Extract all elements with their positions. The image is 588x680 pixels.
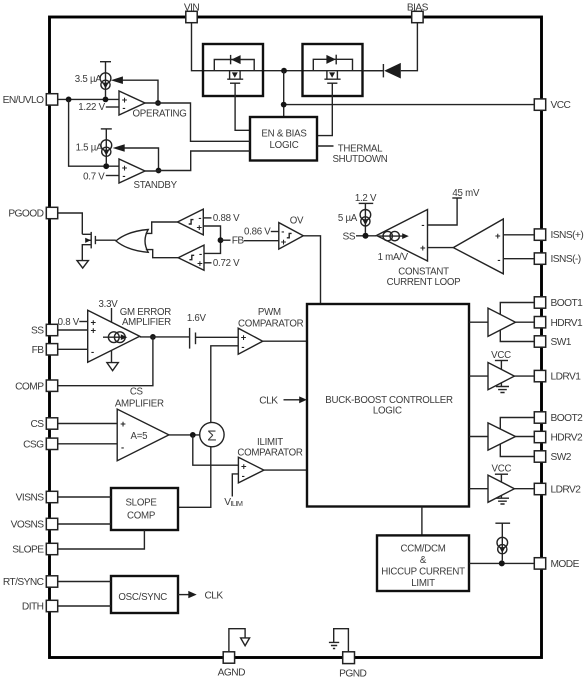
wire OPERATING to EN and BIAS bbox=[145, 103, 250, 141]
wire sigma to slope comp bbox=[178, 447, 211, 508]
svg-text:Σ: Σ bbox=[207, 427, 216, 444]
wire HDRV1 output bbox=[516, 321, 535, 323]
node SS bbox=[343, 232, 377, 243]
svg-text:+: + bbox=[196, 222, 202, 233]
node COMP junction bbox=[150, 334, 156, 340]
wire STANDBY to EN and BIAS bbox=[145, 151, 250, 171]
wire PWM comparator output bbox=[263, 340, 307, 342]
label CLK from oscillator bbox=[178, 590, 223, 601]
svg-text:5 µA: 5 µA bbox=[338, 213, 358, 224]
BUCK-BOOST CONTROLLER LOGIC block bbox=[307, 304, 469, 507]
svg-text:A=5: A=5 bbox=[131, 431, 148, 442]
wire CS amp output bbox=[169, 432, 200, 438]
wire ISNS(-) bbox=[503, 258, 534, 260]
wire HDRV2 output bbox=[516, 436, 535, 438]
pass FET Q2 box bbox=[303, 44, 363, 96]
svg-text:LOGIC: LOGIC bbox=[270, 140, 299, 151]
ground at Q3 bbox=[77, 261, 88, 269]
op-amp FB UV comparator 0.72V bbox=[178, 245, 204, 270]
svg-text:-: - bbox=[122, 171, 125, 182]
pin VOSNS bbox=[11, 518, 58, 530]
capacitor 1.6V offset bbox=[187, 313, 207, 349]
pin DITH bbox=[22, 600, 58, 612]
SLOPE COMP block bbox=[111, 488, 178, 530]
svg-text:ISNS(-): ISNS(-) bbox=[551, 254, 581, 265]
svg-text:HICCUP CURRENT: HICCUP CURRENT bbox=[381, 566, 465, 577]
ground at LDRV2 bbox=[496, 496, 509, 505]
svg-text:VCC: VCC bbox=[551, 100, 571, 111]
svg-text:1.2 V: 1.2 V bbox=[355, 193, 377, 204]
current source I1 3.5uA bbox=[75, 62, 111, 97]
svg-text:LDRV1: LDRV1 bbox=[551, 372, 582, 383]
svg-text:0.8 V: 0.8 V bbox=[58, 317, 80, 328]
pin LDRV1 bbox=[534, 370, 581, 382]
svg-text:SHUTDOWN: SHUTDOWN bbox=[332, 154, 387, 165]
svg-text:VOSNS: VOSNS bbox=[11, 520, 45, 531]
wire to ILIMIT plus bbox=[193, 435, 239, 465]
svg-text:OPERATING: OPERATING bbox=[133, 109, 187, 120]
svg-text:VILIM: VILIM bbox=[224, 497, 243, 508]
svg-text:1.5 µA: 1.5 µA bbox=[76, 142, 103, 153]
pin RT/SYNC bbox=[3, 576, 58, 588]
pin VISNS bbox=[16, 491, 58, 503]
pin AGND bbox=[218, 652, 245, 679]
label GM ERROR AMPLIFIER bbox=[120, 307, 172, 328]
pin CS bbox=[30, 418, 57, 430]
svg-text:LIMIT: LIMIT bbox=[411, 578, 435, 589]
svg-text:3.5 µA: 3.5 µA bbox=[75, 74, 102, 85]
svg-text:1.6V: 1.6V bbox=[187, 313, 207, 324]
OR gate U4 bbox=[116, 230, 148, 253]
wire logic to HDRV2 driver bbox=[469, 436, 488, 438]
svg-text:RT/SYNC: RT/SYNC bbox=[3, 577, 44, 588]
wire logic to LDRV1 driver bbox=[469, 375, 488, 377]
svg-text:VISNS: VISNS bbox=[16, 493, 45, 504]
svg-text:PWM: PWM bbox=[258, 307, 281, 318]
svg-text:AGND: AGND bbox=[218, 668, 245, 679]
svg-text:CS: CS bbox=[130, 387, 144, 398]
label CONSTANT CURRENT LOOP bbox=[387, 267, 461, 288]
svg-text:SW1: SW1 bbox=[551, 337, 572, 348]
op-amp ISNS sense amplifier bbox=[453, 219, 503, 274]
buffer HDRV2 driver bbox=[488, 423, 516, 450]
svg-text:BIAS: BIAS bbox=[407, 3, 429, 14]
pin BOOT1 bbox=[534, 297, 583, 309]
svg-text:SS: SS bbox=[31, 326, 44, 337]
wire COMP pin bbox=[58, 337, 153, 386]
svg-text:CSG: CSG bbox=[23, 439, 44, 450]
svg-text:AMPLIFIER: AMPLIFIER bbox=[122, 317, 171, 328]
op-amp constant current gm amplifier 1mA/V bbox=[377, 210, 428, 264]
ground at LDRV1 bbox=[496, 383, 509, 393]
pin VIN bbox=[184, 3, 200, 23]
wire LDRV2 output bbox=[514, 488, 534, 490]
label VCC at LDRV2 bbox=[492, 464, 512, 482]
current source I4 at MODE bbox=[495, 523, 510, 560]
svg-text:&: & bbox=[420, 555, 427, 566]
pin FB bbox=[32, 344, 58, 356]
pass FET Q1 box bbox=[203, 44, 263, 96]
label 0.7 V bbox=[83, 172, 119, 183]
label 0.88 V bbox=[203, 213, 240, 224]
svg-text:EN/UVLO: EN/UVLO bbox=[3, 95, 45, 106]
svg-text:ISNS(+): ISNS(+) bbox=[551, 230, 584, 241]
svg-text:+: + bbox=[120, 419, 126, 430]
diode D1 BIAS to VCC bbox=[363, 63, 401, 79]
wire DITH pin bbox=[58, 605, 111, 607]
svg-text:0.88 V: 0.88 V bbox=[213, 213, 240, 224]
node OPERATING output bbox=[155, 100, 161, 106]
svg-text:AMPLIFIER: AMPLIFIER bbox=[115, 399, 164, 410]
label 0.8 V bbox=[58, 317, 88, 328]
ground symbol PGND bbox=[329, 629, 349, 654]
svg-text:+: + bbox=[91, 326, 97, 337]
op-amp FB OV comparator 0.88V bbox=[178, 209, 204, 235]
pin HDRV2 bbox=[534, 431, 583, 443]
svg-text:BOOT1: BOOT1 bbox=[551, 298, 584, 309]
buffer LDRV1 driver bbox=[488, 363, 514, 390]
buffer HDRV1 driver bbox=[488, 308, 516, 336]
svg-text:FB: FB bbox=[232, 236, 245, 247]
wire BOOT1 bbox=[500, 303, 534, 315]
svg-text:-: - bbox=[281, 227, 284, 238]
wire VOSNS pin bbox=[58, 523, 111, 525]
label 0.86 V bbox=[244, 227, 279, 238]
pin SLOPE bbox=[12, 543, 57, 555]
wire CC amp plus input bbox=[428, 247, 454, 249]
CCM/DCM HICCUP block bbox=[377, 535, 469, 591]
svg-text:CONSTANT: CONSTANT bbox=[398, 267, 449, 278]
svg-text:LDRV2: LDRV2 bbox=[551, 485, 582, 496]
wire VIN to Q1 bbox=[192, 23, 204, 71]
ground symbol AGND bbox=[229, 629, 250, 653]
svg-text:0.86 V: 0.86 V bbox=[244, 227, 271, 238]
pin HDRV1 bbox=[534, 317, 583, 329]
wire FB pin to error amp bbox=[58, 348, 88, 350]
wire VCC rail bbox=[284, 71, 535, 117]
wire VIN rail through Q1 Q2 bbox=[203, 70, 383, 72]
transistor Q2 bbox=[324, 71, 340, 84]
wire SW2 bbox=[500, 444, 534, 457]
svg-text:ILIMIT: ILIMIT bbox=[257, 437, 283, 448]
wire comparator outputs to OR inputs bbox=[146, 222, 179, 258]
svg-text:FB: FB bbox=[32, 345, 45, 356]
wire ramp to PWM minus bbox=[211, 346, 238, 423]
op-amp OV comparator bbox=[279, 215, 304, 249]
svg-text:BOOT2: BOOT2 bbox=[551, 413, 584, 424]
op-amp U6 PWM comparator bbox=[238, 328, 263, 354]
op-amp U7 CS amplifier A=5 bbox=[117, 409, 169, 461]
label 0.72 V bbox=[204, 258, 240, 269]
pin PGND bbox=[339, 652, 366, 680]
svg-text:CLK: CLK bbox=[259, 396, 278, 407]
svg-text:-: - bbox=[122, 103, 125, 114]
wire LDRV1 output bbox=[514, 375, 534, 377]
svg-text:HDRV1: HDRV1 bbox=[551, 318, 583, 329]
wire Q1 gate to EN and BIAS logic bbox=[235, 83, 250, 130]
svg-text:CCM/DCM: CCM/DCM bbox=[400, 544, 445, 555]
wire OV output to logic bbox=[303, 236, 320, 304]
wire error amp output bbox=[140, 336, 190, 338]
svg-text:-: - bbox=[121, 443, 124, 454]
wire PGOOD bbox=[58, 213, 83, 234]
wire MODE bbox=[469, 560, 534, 566]
label 3.3V bbox=[99, 299, 119, 322]
svg-text:COMP: COMP bbox=[15, 381, 44, 392]
svg-text:VCC: VCC bbox=[492, 464, 512, 475]
label PWM COMPARATOR bbox=[238, 307, 304, 329]
svg-text:1 mA/V: 1 mA/V bbox=[378, 252, 409, 263]
svg-text:+: + bbox=[495, 231, 501, 242]
svg-text:CS: CS bbox=[30, 419, 44, 430]
pin PGOOD bbox=[8, 207, 57, 219]
IC boundary bbox=[50, 17, 542, 658]
label ILIMIT COMPARATOR bbox=[237, 437, 303, 459]
op-amp STANDBY comparator bbox=[119, 159, 178, 191]
label 1.22 V bbox=[78, 102, 119, 113]
svg-text:HDRV2: HDRV2 bbox=[551, 433, 583, 444]
pin MODE bbox=[534, 558, 579, 570]
svg-text:MODE: MODE bbox=[551, 559, 580, 570]
svg-text:VCC: VCC bbox=[491, 350, 511, 361]
svg-text:0.72 V: 0.72 V bbox=[213, 258, 240, 269]
svg-text:COMP: COMP bbox=[127, 510, 155, 521]
svg-text:OSC/SYNC: OSC/SYNC bbox=[118, 592, 167, 603]
svg-text:SS: SS bbox=[343, 232, 356, 243]
pin VCC bbox=[534, 99, 570, 111]
summing node sigma bbox=[200, 422, 224, 446]
svg-text:-: - bbox=[241, 342, 244, 353]
body diode of Q2 bbox=[313, 55, 352, 71]
pin SS bbox=[31, 324, 58, 336]
hysteresis arrow to I1 bbox=[111, 76, 158, 103]
buffer LDRV2 driver bbox=[488, 475, 514, 502]
svg-text:VIN: VIN bbox=[184, 3, 200, 14]
svg-text:STANDBY: STANDBY bbox=[134, 180, 178, 191]
pin ISNS(-) bbox=[534, 253, 580, 265]
pin BIAS bbox=[407, 3, 429, 23]
hysteresis arrow to I2 bbox=[113, 144, 159, 170]
wire ILIMIT output bbox=[264, 469, 307, 471]
EN and BIAS LOGIC block U3 bbox=[250, 117, 317, 161]
wire offset to PWM comparator bbox=[196, 336, 239, 338]
svg-text:CLK: CLK bbox=[205, 590, 224, 601]
node between Q1 and Q2 bbox=[281, 68, 287, 74]
label VCC at LDRV1 bbox=[491, 350, 511, 369]
pin SW1 bbox=[534, 336, 572, 348]
wire OR gate to Q3 gate bbox=[95, 239, 115, 241]
pin EN/UVLO bbox=[3, 94, 58, 106]
node FB bbox=[218, 236, 279, 247]
ground at error amp bbox=[107, 351, 118, 371]
body diode of Q1 bbox=[214, 55, 254, 71]
svg-text:PGND: PGND bbox=[339, 668, 366, 679]
svg-text:+: + bbox=[281, 237, 287, 248]
wire SLOPE pin bbox=[58, 530, 145, 549]
pin CSG bbox=[23, 438, 58, 450]
wire thermal shutdown bbox=[317, 143, 388, 165]
current source I3 5uA with 1.2V bbox=[338, 193, 377, 233]
wire CSG pin bbox=[58, 443, 117, 445]
pin SW2 bbox=[534, 451, 572, 463]
svg-text:LOGIC: LOGIC bbox=[373, 406, 402, 417]
wire Q2 gate to EN and BIAS logic bbox=[317, 83, 332, 135]
svg-text:+: + bbox=[420, 243, 426, 254]
svg-text:+: + bbox=[197, 259, 203, 270]
svg-text:-: - bbox=[421, 220, 424, 231]
pin COMP bbox=[15, 380, 58, 392]
op-amp U5 GM error amplifier bbox=[88, 310, 140, 362]
wire RT/SYNC pin bbox=[58, 581, 111, 583]
svg-text:SW2: SW2 bbox=[551, 452, 572, 463]
label CLK into logic bbox=[259, 396, 307, 407]
svg-text:PGOOD: PGOOD bbox=[8, 209, 43, 220]
wire logic to CCM/DCM block bbox=[421, 507, 423, 536]
wire SW1 bbox=[500, 330, 534, 342]
wire BOOT2 bbox=[500, 418, 534, 430]
OSC/SYNC block bbox=[111, 576, 178, 613]
wire FB sense links bbox=[203, 226, 220, 253]
wire ISNS(+) bbox=[503, 234, 534, 236]
svg-text:COMPARATOR: COMPARATOR bbox=[238, 318, 304, 329]
wire CS pin bbox=[58, 423, 117, 425]
svg-text:THERMAL: THERMAL bbox=[338, 143, 383, 154]
node STANDBY output bbox=[156, 168, 162, 174]
svg-text:3.3V: 3.3V bbox=[99, 299, 119, 310]
svg-text:0.7 V: 0.7 V bbox=[83, 172, 105, 183]
op-amp OPERATING comparator bbox=[119, 91, 187, 120]
wire D1 to BIAS pin bbox=[401, 23, 418, 71]
svg-text:OV: OV bbox=[290, 215, 304, 226]
node VCC rail junction bbox=[281, 102, 287, 108]
transistor Q3 PGOOD pulldown bbox=[82, 232, 95, 260]
wire logic to LDRV2 driver bbox=[469, 488, 488, 490]
svg-text:CURRENT LOOP: CURRENT LOOP bbox=[387, 277, 461, 288]
wire SS pin to error amp bbox=[58, 329, 88, 331]
label 45 mV bbox=[428, 188, 480, 225]
svg-text:-: - bbox=[242, 471, 245, 482]
pin BOOT2 bbox=[534, 412, 583, 424]
svg-text:-: - bbox=[91, 347, 94, 358]
svg-text:SLOPE: SLOPE bbox=[12, 545, 44, 556]
pin LDRV2 bbox=[534, 483, 581, 495]
svg-text:EN & BIAS: EN & BIAS bbox=[261, 129, 307, 140]
svg-text:DITH: DITH bbox=[22, 602, 44, 613]
pin ISNS(+) bbox=[534, 229, 583, 241]
svg-text:-: - bbox=[497, 255, 500, 266]
label VILIM bbox=[224, 474, 243, 508]
wire EN/UVLO to STANDBY bbox=[69, 99, 119, 169]
label CS AMPLIFIER bbox=[115, 387, 164, 410]
svg-text:SLOPE: SLOPE bbox=[125, 498, 157, 509]
wire logic to HDRV1 driver bbox=[469, 321, 488, 323]
svg-text:1.22 V: 1.22 V bbox=[78, 102, 105, 113]
op-amp U8 ILIMIT comparator bbox=[238, 457, 264, 483]
current source I2 1.5uA bbox=[76, 129, 112, 164]
wire VISNS pin bbox=[58, 496, 111, 498]
transistor Q1 bbox=[227, 71, 243, 84]
wire EN/UVLO input bbox=[58, 97, 119, 103]
svg-text:COMPARATOR: COMPARATOR bbox=[237, 448, 303, 459]
